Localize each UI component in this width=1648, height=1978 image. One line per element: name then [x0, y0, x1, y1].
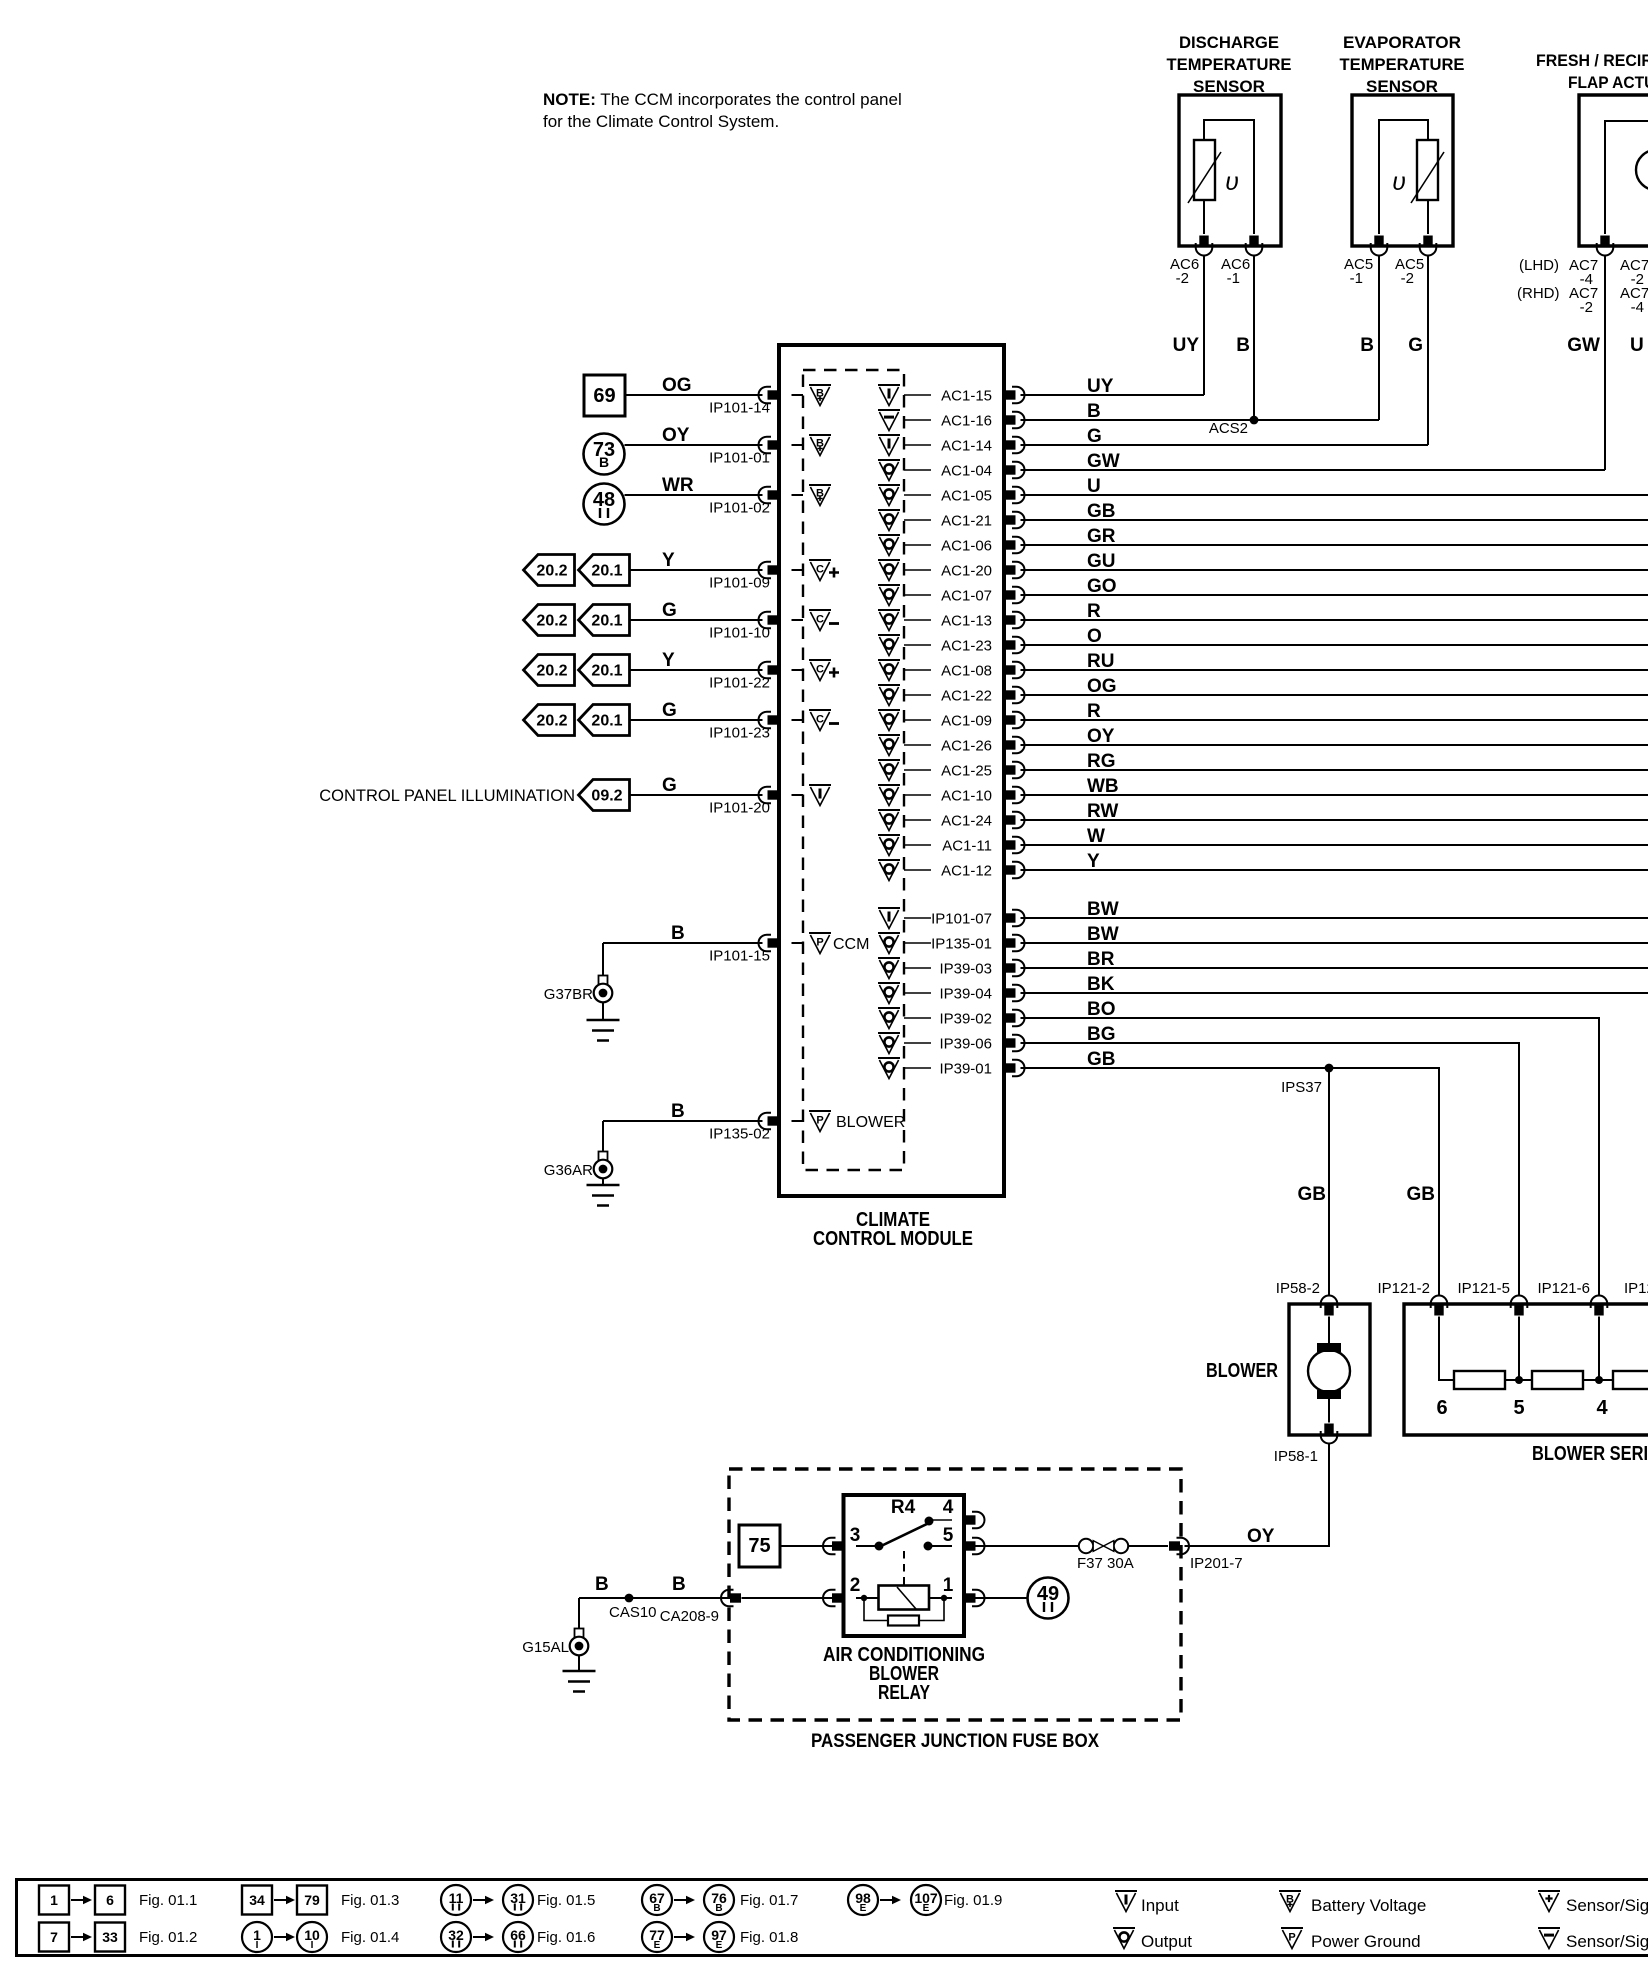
svg-text:AC1-25: AC1-25 [941, 763, 992, 780]
wire WR [625, 475, 763, 496]
relay R4 (air conditioning blower relay) box [844, 1495, 965, 1636]
svg-text:CA208-9: CA208-9 [660, 1608, 719, 1625]
wire into module (left row IP101-22) [792, 669, 804, 671]
ground G15AL [522, 1598, 595, 1692]
relay pin 3 [823, 1525, 860, 1554]
pin AC5-1 [1344, 236, 1387, 288]
svg-text:RELAY: RELAY [878, 1682, 931, 1704]
svg-text:UY: UY [1087, 376, 1114, 397]
wire stub (row AC1-05) [904, 494, 931, 496]
symbol triO (row AC1-13) [878, 610, 900, 631]
svg-text:W: W [1087, 826, 1105, 847]
symbol triO (row AC1-08) [878, 660, 900, 681]
svg-text:IP121-5: IP121-5 [1457, 1280, 1510, 1297]
legend bar [17, 1880, 1648, 1956]
relay pin 5 [943, 1525, 985, 1554]
wire fuse to IP201-7 [1128, 1545, 1168, 1547]
svg-text:AC1-05: AC1-05 [941, 488, 992, 505]
ground G36AR [544, 1152, 620, 1206]
svg-text:IP39-02: IP39-02 [939, 1011, 992, 1028]
wire stub (row AC1-16) [904, 419, 931, 421]
pin IP58-1 [1274, 1424, 1338, 1466]
symbol triO (row AC1-21) [878, 510, 900, 531]
wire GB (IP39-01) [1021, 1049, 1440, 1296]
climate control module box [779, 345, 1004, 1196]
svg-text:69: 69 [593, 385, 615, 407]
symbol triO (row AC1-07) [878, 585, 900, 606]
svg-text:IP101-02: IP101-02 [709, 500, 770, 517]
wire G [630, 600, 763, 621]
relay coil [879, 1586, 930, 1610]
svg-text:AC1-06: AC1-06 [941, 538, 992, 555]
svg-text:20.1: 20.1 [591, 563, 622, 580]
symbol triO (row AC1-22) [878, 685, 900, 706]
resistor element 4 [1596, 1371, 1648, 1419]
wire stub (row AC1-26) [904, 744, 931, 746]
junction dot (coil right) [941, 1595, 947, 1601]
symbol triI (row IP101-20) [809, 785, 831, 806]
wire into module (left row IP101-10) [792, 619, 804, 621]
pin IP39-03 [939, 960, 1024, 978]
svg-text:BW: BW [1087, 924, 1119, 945]
wire OY [625, 425, 763, 446]
svg-text:BW: BW [1087, 899, 1119, 920]
svg-text:GB: GB [1407, 1184, 1436, 1205]
wire stub (row AC1-11) [904, 844, 931, 846]
wire GU (AC1-20) [1021, 551, 1648, 572]
pin IP135-02 [709, 1113, 778, 1143]
pin AC1-25 [941, 762, 1024, 780]
svg-text:31: 31 [510, 1890, 526, 1906]
wire B (battery feed) [579, 1574, 839, 1598]
wire motor leads [1328, 1317, 1330, 1423]
passenger junction fuse box (dashed) [729, 1469, 1181, 1720]
pin AC1-21 [941, 512, 1024, 530]
svg-text:E: E [923, 1903, 930, 1914]
wire OG [625, 375, 763, 396]
pin IP135-01 [931, 935, 1024, 953]
svg-text:G36AR: G36AR [544, 1162, 593, 1179]
svg-text:AC1-22: AC1-22 [941, 688, 992, 705]
svg-text:BR: BR [1087, 949, 1115, 970]
wire G [630, 700, 763, 721]
pin IP101-01 [709, 437, 778, 467]
legend battery voltage symbol [1279, 1891, 1426, 1915]
svg-text:FLAP ACTUATOR: FLAP ACTUATOR [1568, 73, 1648, 92]
wire stub (row AC1-08) [904, 669, 931, 671]
junction dot (coil left) [861, 1595, 867, 1601]
pin IP201-7 [1169, 1538, 1243, 1572]
svg-text:AC1-13: AC1-13 [941, 613, 992, 630]
svg-text:75: 75 [748, 1535, 770, 1557]
svg-text:GB: GB [1298, 1184, 1327, 1205]
svg-text:G: G [1087, 426, 1102, 447]
wire G (AC5-2 down) [1408, 256, 1428, 446]
wire into module (left row IP101-14) [792, 394, 804, 396]
symbol triO (row IP39-02) [878, 1008, 900, 1029]
pin AC7 (LHD -4 / RHD -2) [1517, 236, 1648, 317]
wire Y [630, 550, 763, 571]
pin AC1-24 [941, 812, 1024, 830]
wire stub (row AC1-15) [904, 394, 931, 396]
wire resistor chain [1439, 1317, 1613, 1381]
wire B (CCM ground) [603, 923, 763, 976]
wire Y (AC1-12) [1021, 851, 1648, 872]
symbol triO (row AC1-24) [878, 810, 900, 831]
legend fig 01.8 [642, 1922, 798, 1952]
pin AC1-13 [941, 612, 1024, 630]
symbol triO (row AC1-25) [878, 760, 900, 781]
svg-text:AC1-07: AC1-07 [941, 588, 992, 605]
relay actuating link (dashed) [903, 1551, 905, 1585]
pin AC1-04 [941, 462, 1024, 480]
relay name [823, 1644, 985, 1704]
wire U (second actuator pin, clipped) [1630, 335, 1644, 356]
svg-text:IP121-6: IP121-6 [1537, 1280, 1590, 1297]
reference tag 20.2 (row y=620) [524, 605, 575, 636]
pin AC1-14 [941, 437, 1024, 455]
svg-text:AC1-20: AC1-20 [941, 563, 992, 580]
svg-text:WB: WB [1087, 776, 1119, 797]
svg-text:BK: BK [1087, 974, 1115, 995]
svg-text:Power Ground: Power Ground [1311, 1932, 1421, 1951]
wire into module (left row IP101-02) [792, 494, 804, 496]
svg-text:Y: Y [1087, 851, 1100, 872]
svg-text:Y: Y [662, 650, 675, 671]
resistor element 6 [1436, 1371, 1505, 1419]
symbol triP (row IP135-02) [809, 1111, 905, 1132]
pin IP58-2 [1276, 1280, 1338, 1316]
svg-text:B: B [1360, 335, 1374, 356]
legend input symbol [1115, 1891, 1179, 1915]
reference tag 20.2 (row y=720) [524, 705, 575, 736]
symbol triO (row AC1-05) [878, 485, 900, 506]
svg-text:TEMPERATURE: TEMPERATURE [1340, 55, 1465, 74]
wire BG (IP39-06) [1021, 1024, 1520, 1296]
wire BW (IP135-01) [1021, 924, 1648, 945]
svg-text:GU: GU [1087, 551, 1116, 572]
svg-text:IP39-06: IP39-06 [939, 1036, 992, 1053]
symbol triI (row IP101-07) [878, 908, 900, 929]
svg-text:48: 48 [593, 489, 615, 511]
pin IP39-01 [939, 1060, 1024, 1078]
pin AC1-26 [941, 737, 1024, 755]
svg-text:(LHD): (LHD) [1519, 257, 1559, 274]
wire G (illumination) [630, 775, 763, 796]
svg-text:R4: R4 [891, 1497, 916, 1518]
wire stub (row IP39-04) [904, 992, 931, 994]
pin AC1-12 [941, 862, 1024, 880]
wire R (AC1-13) [1021, 601, 1648, 622]
svg-text:IP58-2: IP58-2 [1276, 1280, 1320, 1297]
svg-text:O: O [1087, 626, 1102, 647]
svg-text:B: B [671, 1101, 685, 1122]
svg-text:E: E [716, 1940, 723, 1951]
wire OG (AC1-22) [1021, 676, 1648, 697]
discharge temperature sensor box [1179, 95, 1281, 246]
svg-text:G: G [1408, 335, 1423, 356]
svg-text:I: I [256, 1940, 259, 1951]
svg-text:7: 7 [50, 1929, 58, 1945]
svg-text:B: B [599, 454, 609, 470]
pin IP101-22 [709, 662, 778, 692]
svg-text:B: B [1236, 335, 1250, 356]
wire stub (row AC1-23) [904, 644, 931, 646]
wire BW (IP101-07) [1021, 899, 1648, 920]
pin IP121-5 [1457, 1280, 1527, 1316]
legend fig 01.3 [242, 1886, 399, 1915]
pin AC1-23 [941, 637, 1024, 655]
thermistor (evaporator sensor) [1392, 140, 1444, 203]
pin IP39-06 [939, 1035, 1024, 1053]
reference tag 20.1 (row y=720) [579, 705, 630, 736]
svg-text:Fig. 01.5: Fig. 01.5 [537, 1892, 595, 1909]
evaporator temperature sensor title [1340, 33, 1465, 96]
wire into module (left row IP101-20) [792, 794, 804, 796]
wire R (AC1-09) [1021, 701, 1648, 722]
pin AC1-07 [941, 587, 1024, 605]
pin IP121-6 [1537, 1280, 1607, 1316]
svg-text:-2: -2 [1176, 270, 1189, 287]
wire stub (row IP39-06) [904, 1042, 931, 1044]
svg-text:Fig. 01.4: Fig. 01.4 [341, 1929, 399, 1946]
svg-text:CONTROL MODULE: CONTROL MODULE [813, 1228, 973, 1250]
svg-text:33: 33 [102, 1929, 118, 1945]
svg-text:E: E [654, 1940, 661, 1951]
pin AC1-15 [941, 387, 1024, 405]
svg-text:TEMPERATURE: TEMPERATURE [1167, 55, 1292, 74]
wire stub (row AC1-25) [904, 769, 931, 771]
svg-text:Sensor/Signal +: Sensor/Signal + [1566, 1896, 1648, 1915]
pin AC1-08 [941, 662, 1024, 680]
svg-text:34: 34 [249, 1892, 265, 1908]
pin IP39-04 [939, 985, 1024, 1003]
resistor element 5 [1513, 1371, 1583, 1419]
wire stub (row IP135-01) [904, 942, 931, 944]
wire BK (IP39-04) [1021, 974, 1648, 995]
svg-text:GW: GW [1567, 335, 1600, 356]
svg-text:ACS2: ACS2 [1209, 420, 1248, 437]
svg-text:6: 6 [1436, 1397, 1447, 1419]
svg-text:Fig. 01.8: Fig. 01.8 [740, 1929, 798, 1946]
wire 75 to relay pin 3 [780, 1545, 839, 1547]
wire stub (row AC1-13) [904, 619, 931, 621]
symbol triO (row AC1-12) [878, 860, 900, 881]
svg-text:SENSOR: SENSOR [1193, 77, 1265, 96]
svg-text:B: B [715, 1903, 722, 1914]
symbol triC (row IP101-10) [809, 610, 839, 631]
symbol triO (row AC1-10) [878, 785, 900, 806]
pin AC5-2 [1395, 236, 1436, 288]
connector 49 [969, 1578, 1069, 1619]
svg-text:RW: RW [1087, 801, 1118, 822]
pin CA208-9 [660, 1590, 741, 1625]
pin IP101-14 [709, 387, 778, 417]
symbol triM (row AC1-16) [878, 410, 900, 431]
svg-text:11: 11 [449, 1890, 464, 1906]
wire GW (AC1-04) [1021, 451, 1606, 472]
reference tag 20.2 (row y=670) [524, 655, 575, 686]
pin AC1-10 [941, 787, 1024, 805]
pin IP101-07 [931, 910, 1024, 928]
svg-text:CAS10: CAS10 [609, 1604, 657, 1621]
svg-text:GO: GO [1087, 576, 1117, 597]
wire GB (IPS37 down to blower IP58-2) [1298, 1068, 1330, 1296]
connector 48 [584, 484, 625, 525]
svg-text:B: B [595, 1574, 609, 1595]
symbol triO (row IP39-03) [878, 958, 900, 979]
wire OY (AC1-26) [1021, 726, 1648, 747]
symbol triC (row IP101-09) [809, 560, 839, 581]
relay pin 2 [823, 1575, 860, 1606]
wire stub (row AC1-21) [904, 519, 931, 521]
svg-text:-1: -1 [1227, 270, 1240, 287]
svg-text:5: 5 [943, 1525, 954, 1546]
wire thermistor loop (discharge) [1204, 120, 1254, 234]
svg-text:BLOWER: BLOWER [1206, 1360, 1278, 1382]
wire stub (row AC1-20) [904, 569, 931, 571]
legend fig 01.9 [848, 1885, 1002, 1915]
legend sensor/signal + symbol [1538, 1891, 1648, 1915]
pin IP101-15 [709, 935, 778, 965]
svg-text:Y: Y [662, 550, 675, 571]
svg-text:AC1-16: AC1-16 [941, 413, 992, 430]
symbol triI (row AC1-14) [878, 435, 900, 456]
svg-text:B: B [1087, 401, 1101, 422]
wire GW (actuator down) [1567, 256, 1605, 471]
svg-text:AC1-15: AC1-15 [941, 388, 992, 405]
svg-text:RG: RG [1087, 751, 1116, 772]
wire stub (row IP39-03) [904, 967, 931, 969]
svg-text:FRESH / RECIRCULATION: FRESH / RECIRCULATION [1536, 51, 1648, 70]
evaporator temperature sensor box [1352, 95, 1453, 246]
wire stub (row AC1-12) [904, 869, 931, 871]
svg-text:GW: GW [1087, 451, 1120, 472]
svg-text:AC1-12: AC1-12 [941, 863, 992, 880]
svg-text:AC1-21: AC1-21 [941, 513, 992, 530]
svg-text:UY: UY [1173, 335, 1200, 356]
svg-text:OY: OY [1247, 1526, 1275, 1547]
svg-text:BLOWER: BLOWER [836, 1114, 905, 1131]
svg-text:AC1-11: AC1-11 [942, 838, 992, 855]
svg-text:AC1-10: AC1-10 [941, 788, 992, 805]
wire stub (row AC1-07) [904, 594, 931, 596]
motor (flap actuator, clipped) [1636, 150, 1648, 190]
svg-text:G15AL: G15AL [522, 1639, 569, 1656]
svg-text:Fig. 01.2: Fig. 01.2 [139, 1929, 197, 1946]
svg-text:CCM: CCM [833, 936, 869, 953]
svg-text:20.2: 20.2 [536, 563, 567, 580]
symbol triC (row IP101-23) [809, 710, 839, 731]
svg-text:DISCHARGE: DISCHARGE [1179, 33, 1279, 52]
relay pin 1 [943, 1575, 985, 1606]
svg-text:IP101-10: IP101-10 [709, 625, 770, 642]
symbol triO (row IP39-04) [878, 983, 900, 1004]
legend fig 01.7 [642, 1885, 798, 1915]
svg-text:-1: -1 [1350, 270, 1363, 287]
junction CAS10 [609, 1594, 657, 1621]
svg-text:AC1-23: AC1-23 [941, 638, 992, 655]
wire BR (IP39-03) [1021, 949, 1648, 970]
junction dot (IP121-6 tap) [1595, 1376, 1603, 1384]
reference tag 20.1 (row y=570) [579, 555, 630, 586]
svg-text:U: U [1630, 335, 1644, 356]
svg-text:Fig. 01.9: Fig. 01.9 [944, 1892, 1002, 1909]
svg-text:6: 6 [106, 1892, 114, 1908]
wire U (AC1-05) [1021, 476, 1648, 497]
wire GR (AC1-06) [1021, 526, 1648, 547]
svg-text:49: 49 [1037, 1583, 1059, 1605]
symbol triO (row IP135-01) [878, 933, 900, 954]
fresh/recirculation flap actuator title [1536, 51, 1648, 92]
svg-text:U: U [1087, 476, 1101, 497]
junction IPS37 [1281, 1064, 1333, 1096]
svg-text:IP101-20: IP101-20 [709, 800, 770, 817]
svg-text:WR: WR [662, 475, 694, 496]
svg-text:IP58-1: IP58-1 [1274, 1448, 1318, 1465]
svg-text:PASSENGER JUNCTION FUSE BOX: PASSENGER JUNCTION FUSE BOX [811, 1730, 1099, 1752]
wire UY (AC1-15) [1021, 376, 1205, 397]
fresh/recirculation flap actuator box (clipped at right) [1579, 95, 1648, 246]
pin IP101-09 [709, 562, 778, 592]
wire G (AC1-14) [1021, 426, 1429, 447]
svg-text:Fig. 01.6: Fig. 01.6 [537, 1929, 595, 1946]
wire GB (AC1-21) [1021, 501, 1648, 522]
symbol triC (row IP101-22) [809, 660, 839, 681]
pin IP101-10 [709, 612, 778, 642]
wire relay pin5 to fuse F37 [969, 1545, 1080, 1547]
wire W (AC1-11) [1021, 826, 1648, 847]
svg-text:20.2: 20.2 [536, 613, 567, 630]
svg-text:SENSOR: SENSOR [1366, 77, 1438, 96]
svg-text:IP135-02: IP135-02 [709, 1126, 770, 1143]
svg-text:GR: GR [1087, 526, 1116, 547]
legend power ground symbol [1281, 1928, 1421, 1951]
junction dot (IP121-5 tap) [1515, 1376, 1523, 1384]
svg-text:CONTROL PANEL ILLUMINATION: CONTROL PANEL ILLUMINATION [319, 787, 575, 805]
wire B (AC1-16) [1021, 401, 1380, 422]
svg-text:09.2: 09.2 [591, 788, 622, 805]
symbol triO (row IP39-06) [878, 1033, 900, 1054]
svg-text:2: 2 [850, 1575, 861, 1596]
svg-text:BO: BO [1087, 999, 1116, 1020]
svg-text:IP135-01: IP135-01 [931, 936, 992, 953]
svg-text:BG: BG [1087, 1024, 1116, 1045]
symbol triB (row IP101-01) [809, 435, 831, 456]
svg-text:AC1-24: AC1-24 [941, 813, 992, 830]
thermistor (discharge sensor) [1188, 140, 1239, 203]
symbol triB (row IP101-14) [809, 385, 831, 406]
wire BO (IP39-02) [1021, 999, 1600, 1296]
svg-text:EVAPORATOR: EVAPORATOR [1343, 33, 1461, 52]
connector 75 [739, 1525, 780, 1567]
wire stub (row IP39-02) [904, 1017, 931, 1019]
svg-text:IP101-07: IP101-07 [931, 911, 992, 928]
svg-text:5: 5 [1513, 1397, 1524, 1419]
svg-text:B: B [672, 1574, 686, 1595]
legend fig 01.1 [39, 1886, 197, 1915]
svg-text:-2: -2 [1580, 299, 1593, 316]
svg-text:20.2: 20.2 [536, 663, 567, 680]
legend sensor/signal - symbol [1538, 1928, 1648, 1951]
wire B (AC5-1 down to ACS2 junction wire) [1360, 256, 1379, 421]
pin IP39-02 [939, 1010, 1024, 1028]
svg-text:1: 1 [943, 1575, 954, 1596]
symbol triO (row AC1-11) [878, 835, 900, 856]
svg-text:3: 3 [850, 1525, 861, 1546]
svg-text:-4: -4 [1631, 299, 1644, 316]
discharge temperature sensor title [1167, 33, 1292, 96]
